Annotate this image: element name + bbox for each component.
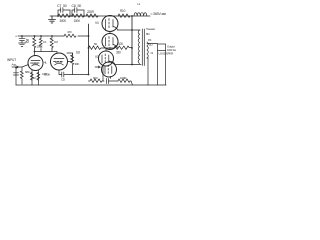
svg-text:EF86: EF86 [33, 61, 39, 65]
input text arrow [12, 66, 19, 68]
svg-text:6.8: 6.8 [76, 51, 80, 55]
resistor vertical B (x41) [39, 36, 42, 48]
resistor R3 on rail [86, 14, 98, 17]
svg-text:P4: P4 [148, 38, 152, 42]
resistor on x32 [30, 73, 33, 81]
tube V3a phase splitter [99, 51, 114, 66]
svg-text:Tweeter: Tweeter [146, 27, 155, 31]
svg-text:50: 50 [78, 4, 82, 8]
ground-side vertical at x16 [14, 68, 19, 86]
svg-text:INPUT: INPUT [7, 58, 16, 62]
svg-text:100R: 100R [120, 76, 127, 80]
tube V1 [28, 56, 43, 71]
svg-text:220R: 220R [87, 10, 95, 14]
resistor R1 on rail [58, 14, 70, 17]
capacitor C8 bridge over R2 [72, 8, 84, 16]
wire V1 plate up [34, 52, 36, 56]
cathode resistor x22 [20, 67, 23, 84]
bottom resistor right [118, 79, 133, 85]
choke L1 on rail [134, 13, 147, 16]
labels (smudged small text) [7, 2, 177, 82]
wire mid horizontal [18, 35, 89, 37]
svg-text:C8: C8 [72, 4, 76, 8]
svg-text:600: 600 [93, 76, 98, 80]
coupling cap series on y74.5 [59, 72, 89, 77]
V2 cathode down [58, 70, 60, 75]
cathode hook V3a [109, 61, 115, 65]
speaker line 1 [157, 51, 159, 86]
svg-text:V3: V3 [95, 55, 99, 59]
bottom rail [16, 84, 166, 86]
cathode hook V4 [113, 27, 118, 31]
wire screen feed vertical [131, 16, 133, 65]
svg-text:R10: R10 [120, 9, 126, 13]
transformer core [142, 29, 144, 66]
electrolytic cap to ground [19, 36, 26, 46]
svg-text:≈3: ≈3 [150, 51, 153, 55]
svg-text:V4: V4 [95, 21, 99, 25]
resistor vertical C (x52) [50, 36, 53, 49]
secondary lead bottom to ground rail [147, 58, 148, 85]
svg-text:0.05: 0.05 [42, 72, 47, 76]
svg-text:100K: 100K [74, 19, 82, 23]
svg-text:100K: 100K [37, 45, 43, 49]
bottom cap [107, 79, 119, 84]
svg-text:+: + [15, 35, 17, 39]
svg-text:30K: 30K [75, 62, 80, 66]
resistor R4 on rail [118, 14, 130, 17]
resistor R2 on rail [72, 14, 84, 17]
wire B+ top rail [50, 15, 150, 17]
svg-text:50: 50 [63, 4, 67, 8]
secondary lead top [147, 43, 158, 45]
svg-text:L1: L1 [138, 2, 141, 6]
cathode leads from V3 [103, 66, 111, 81]
svg-text:0.1: 0.1 [43, 40, 47, 44]
transformer secondary [147, 42, 148, 58]
svg-text:LOUDSPKR: LOUDSPKR [159, 52, 175, 56]
speaker line 2 [165, 51, 167, 86]
svg-text:300K: 300K [60, 19, 68, 23]
svg-text:5Ω: 5Ω [149, 43, 153, 47]
resistor on x38.5 [37, 73, 40, 81]
tube V5 output (second circle) [102, 34, 118, 50]
wire plate V5/V6 lower to transformer [115, 64, 141, 66]
grid resistor row right [114, 46, 132, 49]
svg-text:680: 680 [25, 70, 30, 74]
output transformer primary [138, 30, 139, 64]
resistor on mid wire [64, 34, 76, 37]
grid resistor row left [89, 46, 115, 49]
tube V3b phase splitter [102, 62, 117, 77]
svg-text:330: 330 [116, 51, 121, 55]
svg-text:470: 470 [67, 30, 72, 34]
svg-text:ECC83: ECC83 [55, 60, 63, 64]
svg-text:1K: 1K [33, 76, 36, 80]
cathode hook V5 [113, 45, 118, 49]
resistor vertical A (x34) [33, 36, 36, 49]
svg-text:≈ 365V․ми: ≈ 365V․ми [151, 12, 166, 16]
junction dots [15, 15, 133, 75]
svg-text:Ang: Ang [12, 63, 17, 67]
svg-text:50: 50 [94, 42, 97, 46]
wire plate V4 to transformer [118, 29, 141, 31]
tube V2 [51, 53, 68, 70]
coupling wire row y51.5 [35, 49, 58, 54]
svg-text:8Ω: 8Ω [146, 32, 150, 36]
capacitor C7 bridge over R1 [58, 8, 70, 16]
svg-text:1M: 1M [54, 40, 58, 44]
tube V4 output (top circle) [102, 16, 118, 32]
svg-text:10K: 10K [118, 42, 124, 46]
wire V2 plate right [67, 53, 73, 62]
svg-text:C7: C7 [57, 4, 61, 8]
input wire to V1 grid [19, 65, 29, 68]
wire screen node drop [88, 24, 90, 75]
resistor vertical x72.5 [71, 53, 74, 75]
svg-text:CD: CD [61, 78, 66, 82]
output terminal box [158, 44, 166, 51]
grid arrow into V3b [95, 66, 100, 68]
V1 lower leads [32, 70, 39, 85]
ground top-left [49, 16, 56, 23]
svg-text:4L: 4L [44, 61, 47, 65]
bottom resistor left [89, 79, 105, 82]
